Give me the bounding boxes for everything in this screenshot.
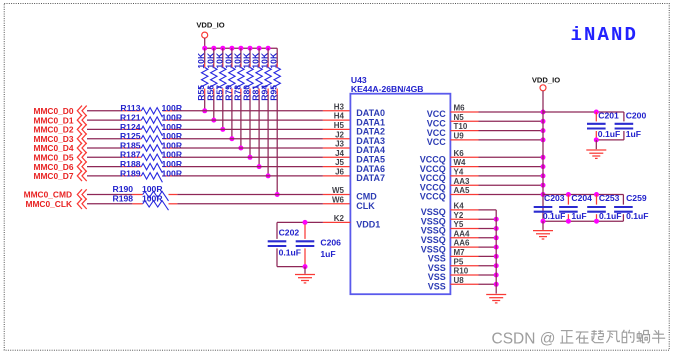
svg-text:U8: U8 xyxy=(454,276,465,285)
junction: ground column / U8 xyxy=(494,282,499,287)
svg-text:J5: J5 xyxy=(335,158,344,167)
junction: pull-up rail / R79 column xyxy=(229,46,234,51)
svg-text:AA3: AA3 xyxy=(454,177,471,186)
pin K4 with wire to ground column xyxy=(450,202,496,211)
pin N5 with wire to VDD_IO bus xyxy=(450,113,543,122)
capacitor C203 0.1uF xyxy=(534,193,566,221)
svg-text:H5: H5 xyxy=(334,121,345,130)
svg-text:100R: 100R xyxy=(142,194,163,204)
svg-text:R10: R10 xyxy=(454,267,469,276)
wire VSS ground column xyxy=(495,210,497,294)
svg-text:C201: C201 xyxy=(598,111,619,121)
wire MMC0_D0 (resistor to pin) xyxy=(173,110,323,112)
svg-text:C202: C202 xyxy=(279,227,300,237)
svg-text:K2: K2 xyxy=(334,214,345,223)
pin R10 with wire to ground column xyxy=(450,267,496,276)
pin M7 with wire to ground column xyxy=(450,248,496,257)
svg-text:J6: J6 xyxy=(335,168,344,177)
pin AA4 with wire to ground column xyxy=(450,229,496,238)
svg-text:T10: T10 xyxy=(454,122,468,131)
junction: bus / AA5 xyxy=(541,192,546,197)
junction: pull-up rail / R78 column xyxy=(238,46,243,51)
svg-text:R198: R198 xyxy=(113,194,134,204)
pin Y2 with wire to ground column xyxy=(450,211,496,220)
svg-text:C259: C259 xyxy=(626,193,647,203)
ground (VCCQ decoupling) xyxy=(533,231,553,239)
pin W6 xyxy=(323,195,351,204)
power symbol VDD_IO (pull-up rail supply) xyxy=(196,20,224,48)
pin J2 (DATA3) xyxy=(323,130,351,139)
junction: pull-up rail / R55 column xyxy=(202,46,207,51)
wire MMC0_D2 (entry to resistor) xyxy=(87,128,123,130)
wire MMC0_D4 (entry to resistor) xyxy=(87,147,123,149)
svg-text:Y4: Y4 xyxy=(454,168,464,177)
wire: R55 column down to net xyxy=(202,95,207,114)
svg-text:W4: W4 xyxy=(454,158,467,167)
IC U43 KE44A-26BN/4GB eMMC xyxy=(350,75,450,294)
resistor R189 100R series xyxy=(120,168,183,182)
ground (VSS pins) xyxy=(486,295,506,303)
junction: bus / N5 xyxy=(541,119,546,124)
pin M6 with wire to VDD_IO bus xyxy=(450,104,543,113)
junction: pull-up rail / R81 column xyxy=(257,46,262,51)
svg-text:1uF: 1uF xyxy=(626,129,641,139)
svg-text:K6: K6 xyxy=(454,149,465,158)
svg-text:0.1uF: 0.1uF xyxy=(626,211,648,221)
wire: R95 column down to net xyxy=(275,95,280,198)
pin AA3 with wire to VDD_IO bus xyxy=(450,177,543,186)
pin AA5 with wire to VDD_IO bus xyxy=(450,186,543,195)
pin Y5 with wire to ground column xyxy=(450,220,496,229)
resistor R190 100R series xyxy=(113,184,178,201)
resistor R121 100R series xyxy=(120,113,183,127)
sheet entry chevron MMC0_CMD xyxy=(77,189,86,199)
svg-text:AA6: AA6 xyxy=(454,239,471,248)
wire MMC0_CLK (entry to resistor) xyxy=(87,203,132,205)
svg-text:VSS: VSS xyxy=(428,282,446,292)
wire MMC0_CLK (resistor to pin) xyxy=(177,203,323,205)
svg-text:N5: N5 xyxy=(454,113,465,122)
wire MMC0_D0 (entry to resistor) xyxy=(87,110,123,112)
wire MMC0_D7 (resistor to pin) xyxy=(173,175,323,177)
wire VCCQ rail to cap bank xyxy=(543,192,623,205)
junction: ground column / P5 xyxy=(494,263,499,268)
junction: ground column / Y2 xyxy=(494,217,499,222)
capacitor C204 1uF xyxy=(559,193,592,221)
svg-text:H4: H4 xyxy=(334,112,345,121)
svg-text:Y2: Y2 xyxy=(454,211,464,220)
svg-text:U9: U9 xyxy=(454,132,465,141)
sheet entry chevron MMC0_CLK xyxy=(77,199,86,209)
sheet entry chevron MMC0_D6 xyxy=(77,161,86,171)
wire MMC0_D2 (resistor to pin) xyxy=(173,128,323,130)
wire MMC0_D6 (resistor to pin) xyxy=(173,166,323,168)
junction: pull-up rail / R56 column xyxy=(211,46,216,51)
wire MMC0_D3 (resistor to pin) xyxy=(173,138,323,140)
pin U8 with wire to ground column xyxy=(450,276,496,285)
wire VDD_IO vertical bus xyxy=(542,91,544,221)
resistor R113 100R series xyxy=(120,103,182,117)
wire: R57 column down to net xyxy=(220,95,225,132)
svg-text:1uF: 1uF xyxy=(571,211,586,221)
resistor R57 10K pull-up xyxy=(214,48,226,100)
wire cap bank bottom rail xyxy=(541,219,624,230)
svg-text:AA4: AA4 xyxy=(454,229,471,238)
svg-text:W5: W5 xyxy=(332,186,345,195)
svg-text:MMC0_CLK: MMC0_CLK xyxy=(25,199,72,209)
sheet entry chevron MMC0_D3 xyxy=(77,134,86,144)
resistor R124 100R series xyxy=(120,122,183,136)
svg-text:J4: J4 xyxy=(335,149,344,158)
svg-text:K4: K4 xyxy=(454,202,465,211)
sheet entry chevron MMC0_D0 xyxy=(77,106,86,116)
junction: pull-up rail / R94 column xyxy=(266,46,271,51)
svg-text:M6: M6 xyxy=(454,104,466,113)
wire MMC0_D3 (entry to resistor) xyxy=(87,138,123,140)
svg-text:VCC: VCC xyxy=(427,137,447,147)
capacitor C202 0.1uF xyxy=(268,227,301,266)
junction: ground column / AA6 xyxy=(494,245,499,250)
resistor R125 100R series xyxy=(120,131,183,145)
pin U9 with wire to VDD_IO bus xyxy=(450,132,543,141)
svg-text:C200: C200 xyxy=(626,111,647,121)
pin K6 with wire to VDD_IO bus xyxy=(450,149,543,158)
junction: bus / M6 xyxy=(541,110,546,115)
svg-text:W6: W6 xyxy=(332,195,345,204)
sheet entry chevron MMC0_D2 xyxy=(77,124,86,134)
ground (VDD1 decoupling) xyxy=(295,275,315,283)
junction: bus / AA3 xyxy=(541,183,546,188)
svg-text:VDD1: VDD1 xyxy=(356,220,380,230)
sheet entry chevron MMC0_D4 xyxy=(77,143,86,153)
pin W4 with wire to VDD_IO bus xyxy=(450,158,543,167)
wire MMC0_D5 (entry to resistor) xyxy=(87,156,123,158)
svg-text:M7: M7 xyxy=(454,248,466,257)
svg-text:VDD_IO: VDD_IO xyxy=(532,76,560,85)
watermark CJK glyphs xyxy=(560,330,665,344)
wire: R81 column down to net xyxy=(257,95,262,170)
pin J3 (DATA4) xyxy=(323,140,351,149)
svg-text:KE44A-26BN/4GB: KE44A-26BN/4GB xyxy=(351,84,424,94)
junction: ground column / R10 xyxy=(494,273,499,278)
wire: R94 column down to net xyxy=(266,95,271,179)
pin T10 with wire to VDD_IO bus xyxy=(450,122,543,131)
wire: R79 column down to net xyxy=(229,95,234,142)
svg-text:AA5: AA5 xyxy=(454,186,471,195)
wire: R56 column down to net xyxy=(211,95,216,123)
pin J4 (DATA5) xyxy=(323,149,351,158)
svg-text:100R: 100R xyxy=(162,168,183,178)
wire: R80 column down to net xyxy=(248,95,253,160)
svg-text:VCCQ: VCCQ xyxy=(420,192,446,202)
sheet entry chevron MMC0_D7 xyxy=(77,171,86,181)
junction: bus / K6 xyxy=(541,155,546,160)
pin AA6 with wire to ground column xyxy=(450,239,496,248)
resistor R198 100R series xyxy=(113,194,178,211)
svg-text:10K: 10K xyxy=(269,52,279,69)
svg-text:0.1uF: 0.1uF xyxy=(598,129,620,139)
capacitor C206 1uF xyxy=(296,224,341,266)
wire VCC rail to C201/C200 xyxy=(543,110,624,122)
svg-text:0.1uF: 0.1uF xyxy=(279,247,301,257)
svg-text:CSDN @: CSDN @ xyxy=(492,330,556,347)
svg-text:Y5: Y5 xyxy=(454,220,464,229)
wire VDD1 net to decoupling caps xyxy=(277,220,323,239)
capacitor C253 0.1uF xyxy=(587,193,621,221)
pin K2 (VDD1) xyxy=(323,214,351,223)
wire MMC0_CMD (entry to resistor) xyxy=(87,194,132,196)
resistor R188 100R series xyxy=(120,159,183,173)
svg-text:DATA7: DATA7 xyxy=(356,173,385,183)
svg-text:J3: J3 xyxy=(335,140,344,149)
pin H3 (DATA0) xyxy=(323,102,351,111)
junction: bus / W4 xyxy=(541,164,546,169)
junction: bus / T10 xyxy=(541,128,546,133)
svg-text:iNAND: iNAND xyxy=(571,24,639,46)
resistor R187 100R series xyxy=(120,150,183,164)
resistor R95 10K pull-up xyxy=(269,48,281,100)
svg-text:H3: H3 xyxy=(334,102,345,111)
wire MMC0_D7 (entry to resistor) xyxy=(87,175,123,177)
svg-text:J2: J2 xyxy=(335,130,344,139)
svg-text:C206: C206 xyxy=(320,238,341,248)
wire MMC0_CMD (resistor to pin) xyxy=(177,194,323,196)
pin Y4 with wire to VDD_IO bus xyxy=(450,168,543,177)
capacitor C201 0.1uF xyxy=(587,111,620,140)
pin H4 (DATA1) xyxy=(323,112,351,121)
capacitor C200 1uF xyxy=(615,111,647,140)
wire MMC0_D4 (resistor to pin) xyxy=(173,147,323,149)
junction: pull-up rail / R80 column xyxy=(248,46,253,51)
sheet entry chevron MMC0_D5 xyxy=(77,152,86,162)
wire: R78 column down to net xyxy=(238,95,243,151)
resistor R80 10K pull-up xyxy=(242,48,254,100)
svg-text:MMC0_D7: MMC0_D7 xyxy=(33,171,73,181)
power symbol VDD_IO (right bus) xyxy=(532,76,560,91)
resistor R78 10K pull-up xyxy=(232,48,244,100)
pin W5 xyxy=(323,186,351,195)
pin P5 with wire to ground column xyxy=(450,257,496,266)
junction: bus / U9 xyxy=(541,137,546,142)
junction: ground column / M7 xyxy=(494,254,499,259)
junction: ground column / Y5 xyxy=(494,226,499,231)
sheet entry chevron MMC0_D1 xyxy=(77,115,86,125)
wire MMC0_D5 (resistor to pin) xyxy=(173,156,323,158)
wire MMC0_D1 (resistor to pin) xyxy=(173,119,323,121)
resistor R185 100R series xyxy=(120,140,183,154)
wire MMC0_D1 (entry to resistor) xyxy=(87,119,123,121)
svg-text:C253: C253 xyxy=(599,193,620,203)
wire: VDD_IO pull-up rail xyxy=(205,47,278,49)
svg-text:C204: C204 xyxy=(571,193,592,203)
junction: pull-up rail / R57 column xyxy=(220,46,225,51)
svg-text:C203: C203 xyxy=(544,193,565,203)
capacitor C259 0.1uF xyxy=(614,193,648,221)
svg-text:CLK: CLK xyxy=(356,201,375,211)
svg-text:P5: P5 xyxy=(454,257,464,266)
resistor R94 10K pull-up xyxy=(260,48,272,100)
pin J5 (DATA6) xyxy=(323,158,351,167)
svg-text:R189: R189 xyxy=(120,168,141,178)
svg-text:1uF: 1uF xyxy=(320,249,335,259)
junction: bus / Y4 xyxy=(541,173,546,178)
resistor R81 10K pull-up xyxy=(251,48,263,100)
wire C201/C200 bottom rail xyxy=(594,137,624,149)
svg-text:VDD_IO: VDD_IO xyxy=(196,20,224,29)
wire MMC0_D6 (entry to resistor) xyxy=(87,166,123,168)
wire C202/C206 ground rail xyxy=(277,264,308,274)
junction: ground column / AA4 xyxy=(494,235,499,240)
resistor R56 10K pull-up xyxy=(205,48,217,100)
pin J6 (DATA7) xyxy=(323,168,351,177)
resistor R55 10K pull-up xyxy=(196,48,208,100)
ground (VCC decoupling) xyxy=(586,150,606,158)
pin H5 (DATA2) xyxy=(323,121,351,130)
resistor R79 10K pull-up xyxy=(223,48,235,100)
